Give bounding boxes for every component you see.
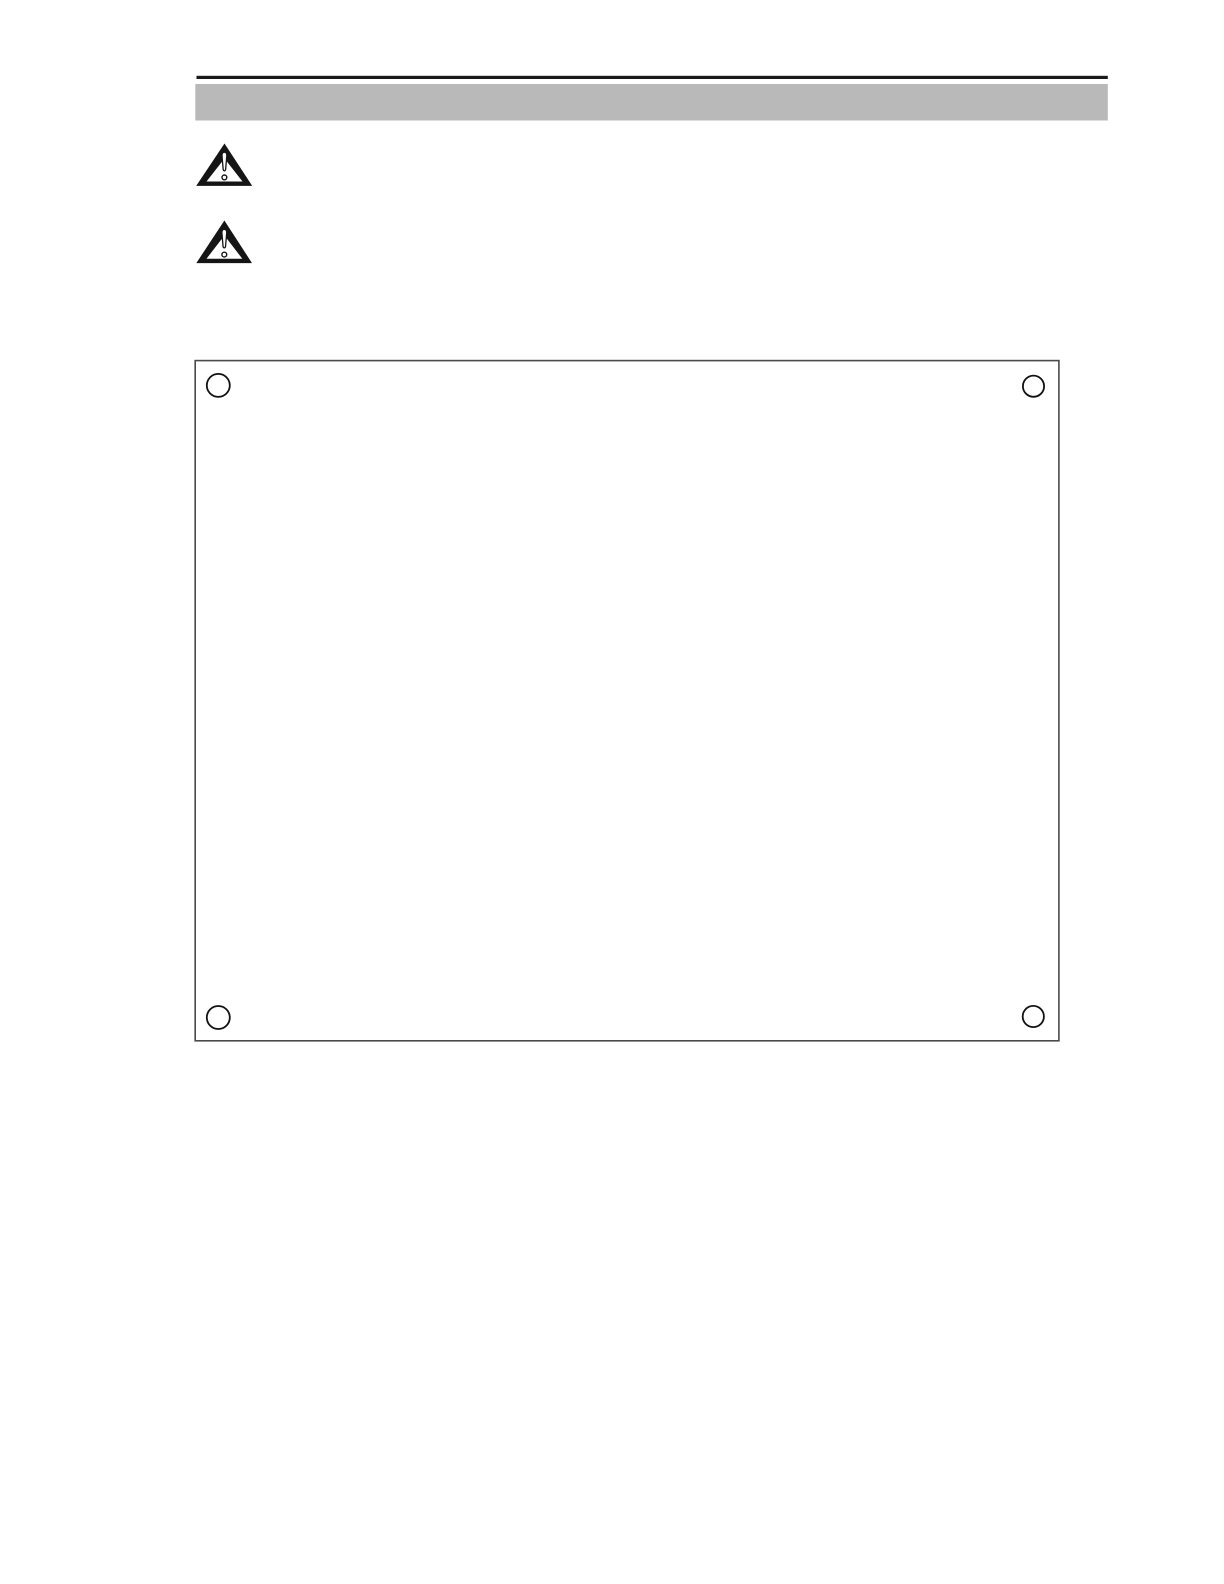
header gray bar (195, 84, 1108, 121)
mounting hole top-left (207, 374, 230, 397)
warning triangle 1 (196, 144, 252, 186)
PCB board outline (195, 361, 1059, 1041)
warning triangle 2 (196, 221, 252, 264)
mounting hole bottom-left (207, 1006, 230, 1029)
mounting hole bottom-right (1023, 1006, 1044, 1027)
mounting hole top-right (1023, 376, 1044, 397)
header rule (197, 76, 1108, 79)
